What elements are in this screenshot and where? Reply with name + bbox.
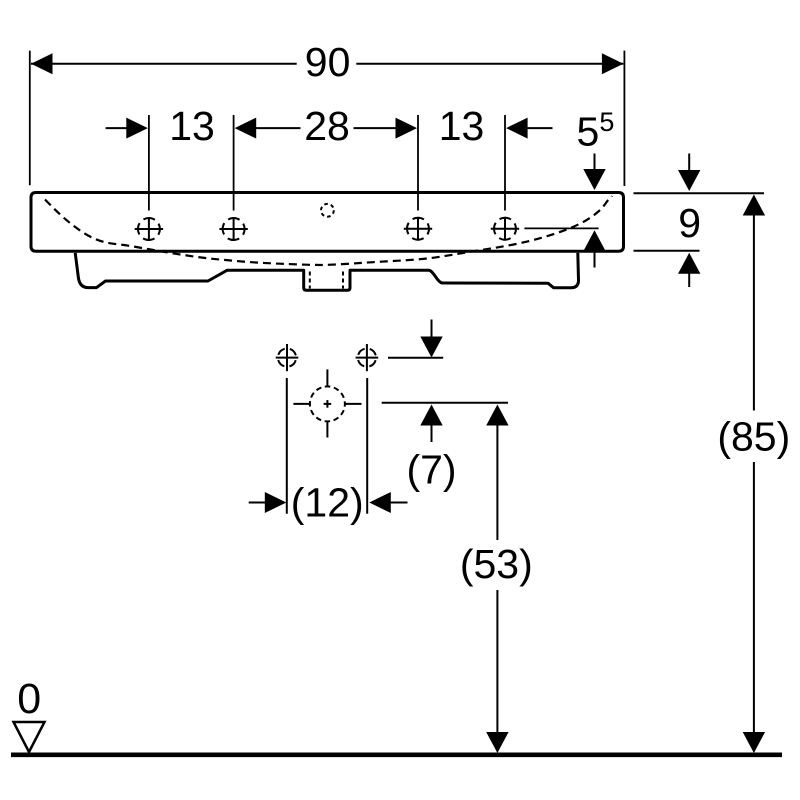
detail reference line through drain center bbox=[382, 402, 508, 404]
dimension (53): lower line bbox=[496, 590, 498, 734]
dimension (53): down arrowhead bbox=[486, 732, 508, 753]
overflow hole: small dashed circle bbox=[321, 204, 334, 217]
dimension 5.5: lower stem bbox=[594, 251, 596, 268]
svg-text:(7): (7) bbox=[406, 447, 456, 493]
drain detail circle (dashed) bbox=[310, 386, 345, 421]
dimension 28: left tail bbox=[255, 127, 301, 129]
dimension 9: down arrowhead bbox=[678, 170, 700, 191]
floor line bbox=[11, 752, 782, 757]
dimension 90: right arrowhead bbox=[602, 53, 624, 74]
dimension 9: bottom reference line bbox=[634, 250, 700, 252]
dimension 90: left extension line bbox=[29, 51, 31, 186]
dimension 28: left arrowhead bbox=[235, 118, 257, 139]
tap hole detail circle 2 (dashed) bbox=[358, 349, 376, 367]
faucet hole 4: cross bbox=[491, 228, 519, 230]
dimension 90: dimension line right segment bbox=[356, 63, 623, 65]
dimension 13 (left): outside tail left bbox=[106, 127, 128, 129]
dimension 28: right tail bbox=[354, 127, 398, 129]
dimension 90: right extension line bbox=[623, 51, 625, 186]
svg-text:(53): (53) bbox=[460, 541, 533, 587]
tap hole detail circle 2: cross bbox=[356, 357, 379, 359]
svg-text:13: 13 bbox=[169, 103, 215, 149]
svg-text:13: 13 bbox=[439, 103, 485, 149]
faucet hole 1: dashed circle bbox=[138, 218, 160, 240]
dimension 28: right arrowhead bbox=[396, 118, 418, 139]
drain detail circle: centerline arms bbox=[326, 369, 328, 386]
tap hole detail circle 1: cross bbox=[276, 357, 299, 359]
faucet hole 4: dashed circle bbox=[494, 218, 516, 240]
dimension (53): up arrowhead bbox=[486, 405, 508, 426]
svg-text:9: 9 bbox=[678, 200, 701, 246]
faucet hole 2: dashed circle bbox=[223, 218, 245, 240]
hole centerline extension (right) bbox=[524, 227, 598, 229]
dimension (12): left tail bbox=[249, 502, 267, 504]
basin outline bbox=[31, 193, 624, 252]
dimension (7): upper stem bbox=[431, 320, 433, 337]
detail reference line through hole centers bbox=[388, 357, 443, 359]
tap hole detail circle 1 (dashed) bbox=[278, 349, 296, 367]
faucet hole 3: cross bbox=[404, 228, 432, 230]
hole extension line 3 bbox=[417, 115, 419, 211]
dimension 90: dimension line left segment bbox=[31, 63, 297, 65]
dimension 13 (right): outside tail right bbox=[526, 127, 553, 129]
dimension (12): left-pointing arrowhead bbox=[369, 492, 391, 513]
svg-text:28: 28 bbox=[304, 103, 350, 149]
dimension (7): down arrowhead bbox=[420, 337, 442, 358]
dimension (7): up arrowhead bbox=[420, 405, 442, 426]
hole extension line 1 bbox=[148, 115, 150, 211]
drain detail circle: center cross bbox=[324, 403, 332, 405]
datum 0: open triangle marker bbox=[14, 722, 45, 752]
dimension (85): up arrowhead bbox=[743, 195, 765, 216]
dimension (85): down arrowhead bbox=[743, 732, 765, 753]
svg-text:(12): (12) bbox=[291, 480, 364, 526]
dimension 9: top reference line bbox=[634, 192, 765, 194]
dimension 13 (right): left-pointing arrowhead bbox=[506, 118, 527, 139]
dimension 5.5: up arrowhead bbox=[583, 230, 605, 251]
dimension (12): right-pointing arrowhead bbox=[265, 492, 287, 513]
inner bowl hidden contour (dashed) bbox=[45, 196, 612, 265]
dimension 5.5: down arrowhead bbox=[583, 169, 605, 190]
dimension (7): lower stem bbox=[431, 425, 433, 443]
dimension 90: left arrowhead bbox=[31, 53, 53, 74]
svg-text:90: 90 bbox=[305, 39, 351, 85]
hole extension line 2 bbox=[233, 115, 235, 211]
dimension 13 (left): right-pointing arrowhead bbox=[126, 118, 148, 139]
faucet hole 3: dashed circle bbox=[407, 218, 429, 240]
dimension 9: lower stem bbox=[688, 273, 690, 287]
dimension (12): right tail bbox=[390, 502, 408, 504]
dimension (85): lower line bbox=[753, 462, 755, 734]
drain box hidden lines (dashed) bbox=[309, 272, 311, 289]
detail extension line below circle 2 bbox=[366, 378, 368, 514]
dimension 5.5: upper stem bbox=[594, 154, 596, 171]
dimension (85): upper line bbox=[753, 215, 755, 411]
faucet hole 2: cross bbox=[219, 228, 247, 230]
faucet hole 1: cross bbox=[135, 228, 163, 230]
basin underside / pedestal profile bbox=[75, 253, 578, 290]
dimension (53): upper line bbox=[496, 425, 498, 541]
dimension 9: upper stem bbox=[688, 154, 690, 172]
svg-text:(85): (85) bbox=[717, 414, 790, 460]
hole extension line 4 bbox=[504, 115, 506, 211]
detail extension line below circle 1 bbox=[286, 378, 288, 514]
dimension 9: up arrowhead bbox=[678, 253, 700, 274]
svg-text:0: 0 bbox=[17, 675, 41, 723]
